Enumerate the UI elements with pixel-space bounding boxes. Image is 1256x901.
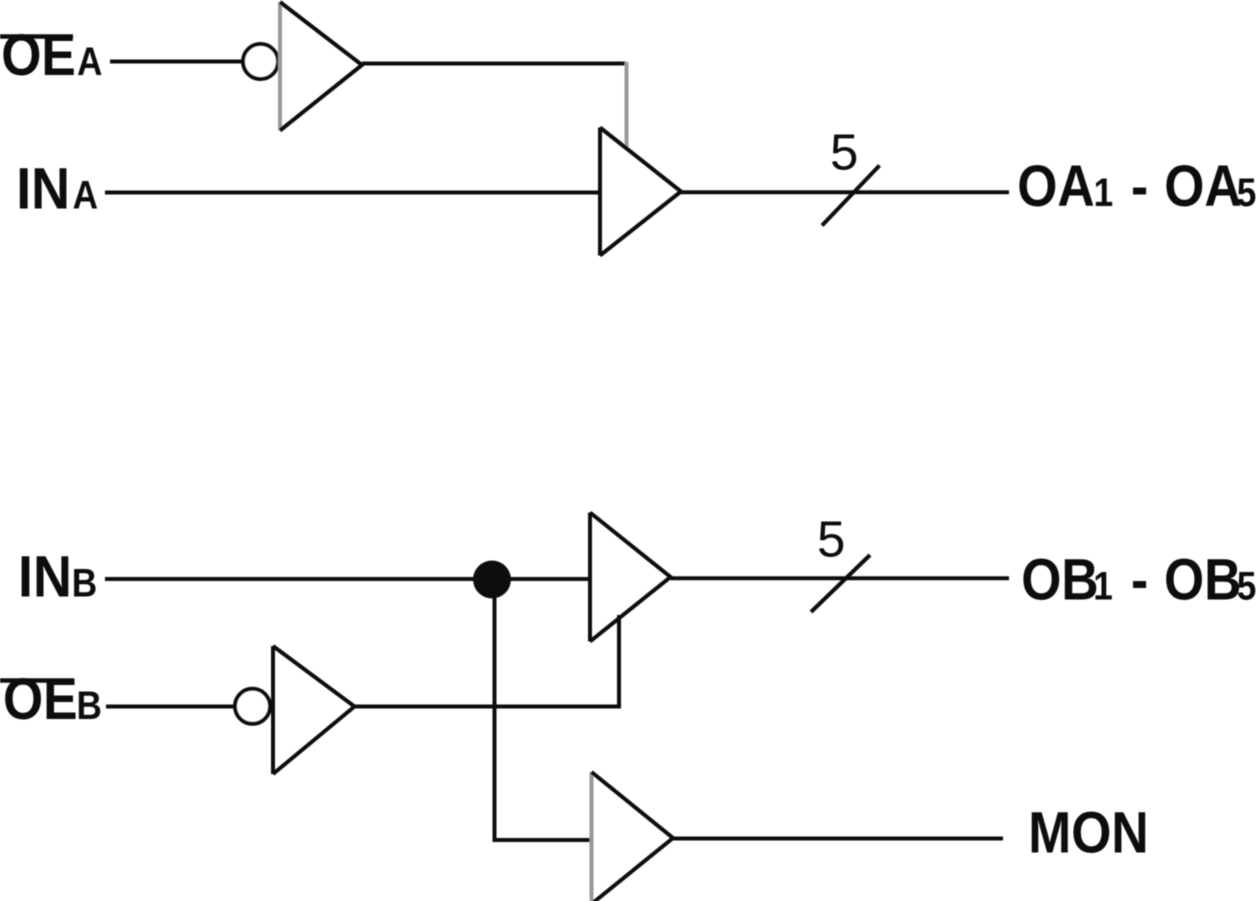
- bus-width slash B: [811, 555, 870, 612]
- svg-text:5: 5: [1237, 170, 1256, 215]
- wire buffer U3 output bus: [671, 576, 1010, 580]
- net label OA1 - OA5: [1017, 153, 1256, 218]
- svg-text:MON: MON: [1028, 800, 1148, 865]
- svg-text:OB: OB: [1021, 547, 1098, 612]
- svg-text:5: 5: [830, 124, 858, 181]
- svg-text:-: -: [1131, 153, 1148, 218]
- svg-text:IN: IN: [18, 544, 72, 609]
- inverter U1 (enable A): [280, 2, 362, 131]
- net label OEB (active-low, overline): [0, 666, 102, 731]
- svg-text:1: 1: [1093, 563, 1113, 608]
- wire INA to buffer U2: [105, 191, 600, 195]
- wire U4 output to buffer U3 enable: [355, 615, 620, 709]
- inverter U1 input bubble: [243, 44, 278, 79]
- bus-width slash A: [822, 166, 880, 226]
- svg-text:B: B: [77, 683, 102, 728]
- net label OEA (active-low, overline): [0, 22, 102, 87]
- svg-text:OE: OE: [1, 22, 76, 87]
- wire junction down to monitor buffer U5: [493, 579, 592, 840]
- svg-text:5: 5: [1237, 563, 1256, 608]
- buffer U3 (bank B output buffer): [590, 513, 671, 642]
- net label OB1 - OB5: [1021, 547, 1256, 612]
- svg-text:5: 5: [817, 511, 845, 568]
- wire buffer U2 output bus: [681, 190, 1009, 194]
- junction node on INB: [473, 561, 511, 599]
- wire OEA input to inverter bubble: [110, 60, 242, 64]
- inverter U4 input bubble: [235, 689, 270, 724]
- svg-text:OA: OA: [1164, 153, 1241, 218]
- wire U1 output to buffer U2 enable: [362, 62, 627, 149]
- buffer U2 (bank A output buffer): [600, 128, 681, 256]
- svg-text:IN: IN: [16, 156, 70, 221]
- net label INA: [16, 156, 98, 221]
- wire buffer U5 output: [673, 837, 1003, 841]
- svg-text:B: B: [72, 560, 97, 605]
- net label INB: [18, 544, 97, 609]
- svg-text:OE: OE: [3, 666, 78, 731]
- inverter U4 (enable B): [273, 646, 355, 774]
- buffer U5 (monitor): [592, 772, 674, 901]
- svg-text:1: 1: [1094, 170, 1114, 215]
- wire OEB input to inverter bubble: [106, 705, 234, 709]
- svg-text:OB: OB: [1164, 547, 1241, 612]
- svg-text:A: A: [77, 39, 102, 84]
- wire INB to buffer U3: [105, 577, 590, 581]
- svg-text:-: -: [1131, 547, 1148, 612]
- svg-text:A: A: [73, 172, 98, 217]
- svg-text:OA: OA: [1017, 153, 1094, 218]
